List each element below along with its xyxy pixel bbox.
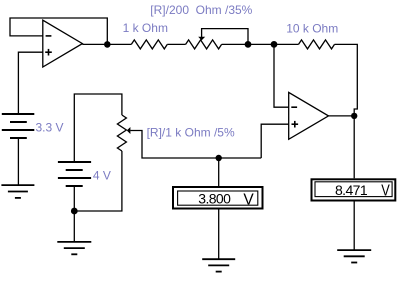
svg-text:[R]/1 k Ohm /5%: [R]/1 k Ohm /5%	[147, 126, 235, 140]
svg-text:4 V: 4 V	[93, 169, 111, 183]
svg-text:V: V	[243, 192, 254, 209]
svg-text:3.3 V: 3.3 V	[36, 121, 64, 135]
svg-text:8.471: 8.471	[335, 182, 368, 198]
svg-text:V: V	[381, 182, 390, 200]
svg-text:1 k Ohm: 1 k Ohm	[123, 21, 168, 35]
svg-text:10 k Ohm: 10 k Ohm	[286, 21, 338, 35]
svg-text:3.800: 3.800	[198, 190, 231, 206]
svg-text:[R]/200 Ohm /35%: [R]/200 Ohm /35%	[150, 3, 252, 17]
